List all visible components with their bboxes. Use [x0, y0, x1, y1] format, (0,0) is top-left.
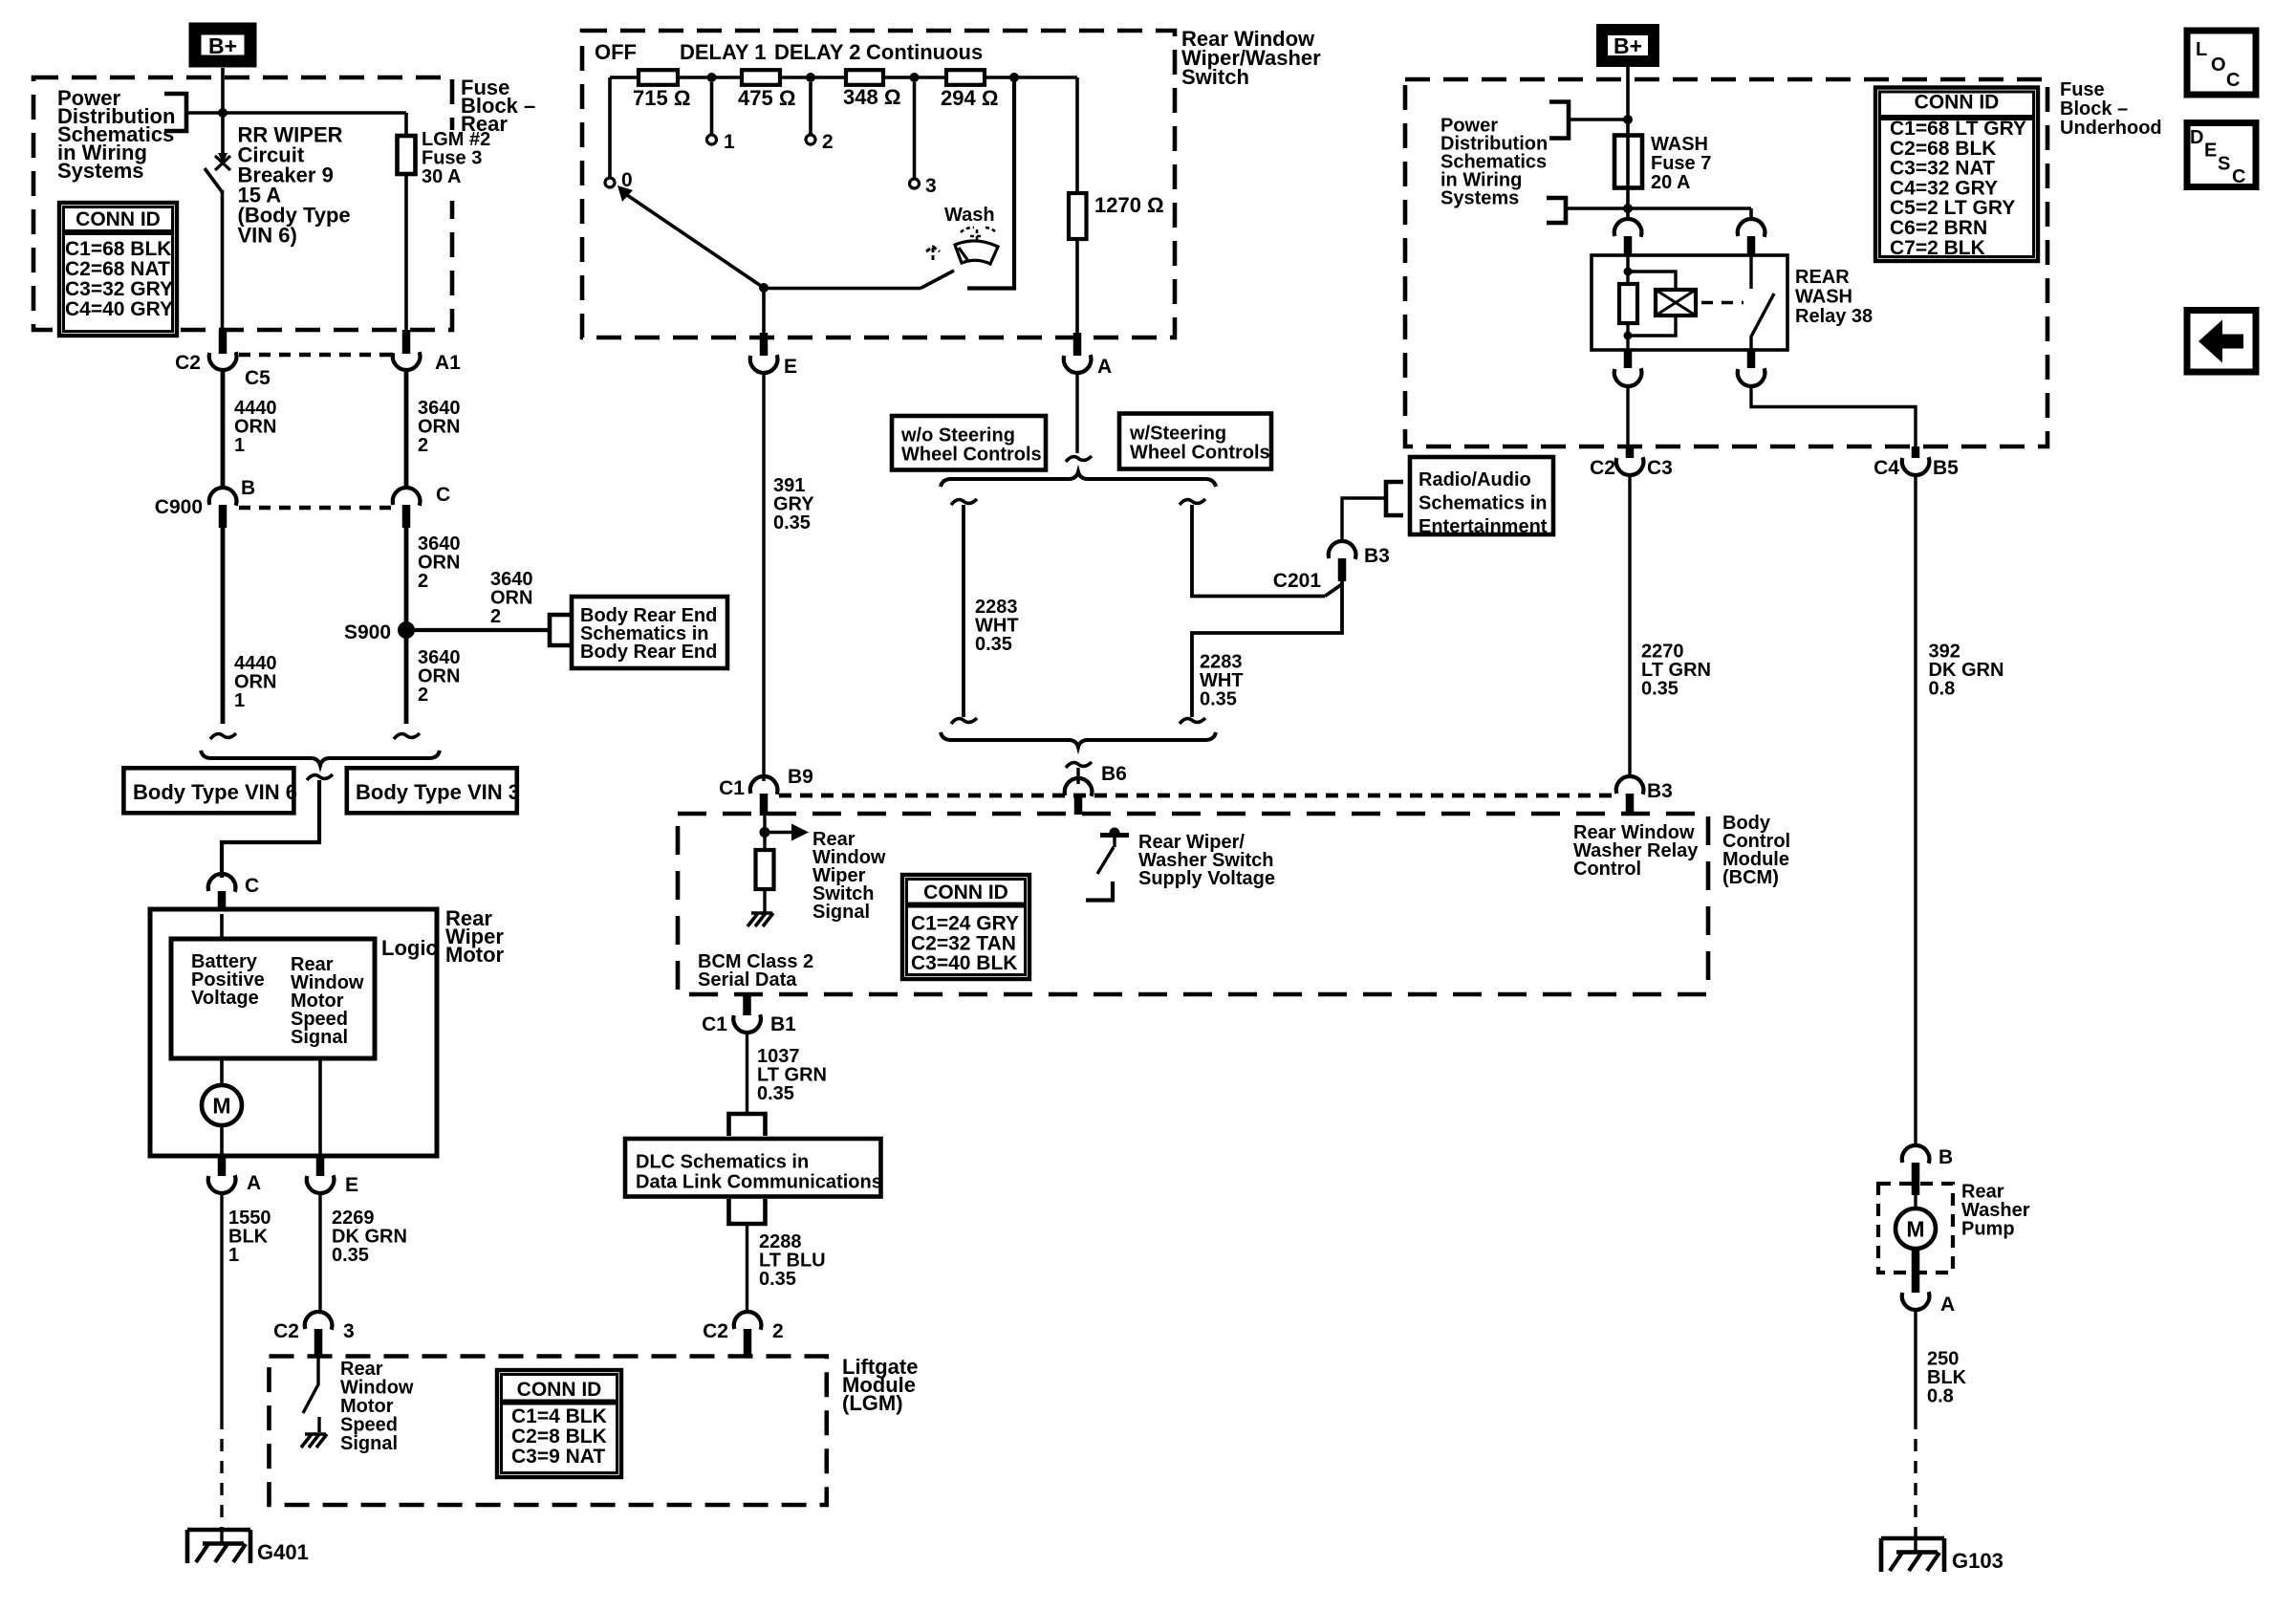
svg-text:C2=8 BLK: C2=8 BLK	[511, 1426, 607, 1448]
dashed module box Liftgate Module LGM	[270, 1357, 827, 1506]
svg-text:CONN ID: CONN ID	[517, 1379, 602, 1401]
svg-text:3: 3	[343, 1320, 355, 1342]
svg-text:C1=68 LT GRY: C1=68 LT GRY	[1890, 118, 2026, 140]
svg-text:Relay 38: Relay 38	[1795, 306, 1873, 327]
svg-text:1: 1	[228, 1245, 239, 1266]
brace steering wheel control options merge	[941, 732, 1216, 748]
svg-text:C1: C1	[702, 1013, 727, 1035]
svg-text:C2=68 BLK: C2=68 BLK	[1890, 138, 1996, 160]
svg-text:C2: C2	[175, 352, 201, 374]
svg-text:Body Rear End: Body Rear End	[580, 642, 717, 663]
connector C900 pin B	[209, 488, 237, 506]
svg-text:C2: C2	[703, 1320, 728, 1342]
node rotary common	[759, 283, 769, 293]
svg-text:C3: C3	[1647, 457, 1673, 479]
arrow rear window wiper switch signal	[765, 831, 791, 834]
svg-text:B3: B3	[1647, 780, 1673, 802]
node delay tap 2	[806, 73, 815, 82]
node B+ distribution (top)	[1623, 115, 1633, 124]
dashed ground wire to G401	[220, 1417, 223, 1528]
reference box Radio/Audio Schematics in Entertainment	[1410, 457, 1553, 534]
svg-text:A1: A1	[435, 352, 461, 374]
svg-text:Fuse: Fuse	[2060, 79, 2105, 100]
icon wiper blade	[955, 241, 998, 264]
svg-text:E: E	[345, 1174, 358, 1196]
svg-text:0.35: 0.35	[332, 1245, 369, 1266]
bracket to Body Rear End Schematics box	[550, 615, 571, 645]
wire end hook 3640	[394, 733, 420, 739]
svg-text:Underhood: Underhood	[2060, 118, 2162, 139]
svg-text:CONN ID: CONN ID	[76, 208, 161, 230]
svg-text:Block –: Block –	[2060, 98, 2128, 120]
bracket wire out of DLC reference	[729, 1199, 766, 1224]
tap wire position 1	[710, 82, 714, 134]
svg-text:2: 2	[822, 131, 834, 153]
wire S900 to Body Rear End reference	[406, 628, 550, 632]
dashed box Rear Window Wiper/Washer Switch	[582, 31, 1175, 337]
wire 2283 WHT right branch upper	[1192, 505, 1325, 597]
svg-text:C: C	[2232, 166, 2245, 187]
connector A (wiper switch)	[1073, 333, 1082, 356]
wire OFF position drop	[608, 77, 612, 177]
wire end hook below VIN brace	[307, 774, 333, 780]
svg-text:Systems: Systems	[1440, 188, 1519, 209]
wire diagonal into C201	[1325, 584, 1342, 597]
svg-text:0.8: 0.8	[1929, 679, 1956, 700]
terminal 3	[910, 179, 920, 188]
svg-text:C5: C5	[245, 367, 271, 389]
svg-text:Data Link Communications: Data Link Communications	[636, 1172, 882, 1193]
motor M (rear wiper motor)	[202, 1085, 242, 1125]
wire end hook left 2283 branch top	[951, 499, 977, 505]
svg-text:2: 2	[418, 571, 428, 592]
svg-text:C4: C4	[1874, 457, 1899, 479]
icon washer spray nozzle	[926, 247, 940, 260]
connector C1 pin B1 (BCM class 2 serial data)	[743, 994, 751, 1015]
relay coil resistor	[1619, 284, 1637, 323]
connector B6 (BCM)	[1076, 768, 1079, 784]
dashed box Fuse Block - Rear	[33, 77, 452, 330]
svg-text:Entertainment: Entertainment	[1419, 516, 1548, 537]
svg-text:2: 2	[772, 1320, 784, 1342]
svg-text:0.35: 0.35	[757, 1083, 794, 1104]
svg-text:C1=68 BLK: C1=68 BLK	[65, 238, 171, 260]
svg-text:B1: B1	[770, 1013, 796, 1035]
svg-text:C900: C900	[155, 496, 203, 518]
svg-text:(BCM): (BCM)	[1722, 867, 1779, 888]
svg-text:0.35: 0.35	[759, 1269, 796, 1290]
wash switch fixed contact	[967, 77, 1014, 289]
svg-text:2: 2	[490, 606, 501, 627]
connector A1 (fuse output)	[402, 330, 411, 354]
node WASH fuse output	[1623, 204, 1633, 213]
fuse block rear CONN ID table	[59, 203, 177, 336]
svg-text:Fuse 7: Fuse 7	[1651, 153, 1711, 174]
bracket to Power Distribution Schematics reference (left)	[164, 94, 186, 131]
dashed module box Body Control Module	[678, 814, 1708, 994]
connector C4 / B5 (washer pump feed)	[1912, 446, 1920, 458]
svg-text:Systems: Systems	[57, 159, 144, 183]
wire from B+ down to circuit breaker	[221, 68, 225, 155]
svg-text:Continuous: Continuous	[866, 40, 983, 64]
svg-text:B5: B5	[1933, 457, 1959, 479]
dashed connector interface line C900 B-C	[239, 506, 391, 511]
svg-text:C2=68 NAT: C2=68 NAT	[65, 258, 170, 280]
relay contact	[1749, 255, 1752, 289]
svg-text:C: C	[2226, 70, 2240, 91]
wire from VIN brace to rear wiper motor connector C	[222, 780, 319, 878]
svg-text:C: C	[245, 875, 259, 897]
resistor 475 ohm	[742, 70, 780, 85]
wire B3 to radio/audio reference	[1342, 498, 1386, 543]
svg-text:B3: B3	[1364, 545, 1390, 567]
svg-text:1: 1	[724, 131, 735, 153]
dashed ground wire to G103	[1914, 1417, 1917, 1536]
svg-text:1270 Ω: 1270 Ω	[1094, 193, 1164, 217]
wire end hook at A	[1066, 456, 1092, 462]
svg-text:715 Ω: 715 Ω	[633, 86, 690, 110]
svg-text:B: B	[241, 477, 255, 499]
bracket to Power Distribution Schematics (right bottom)	[1547, 198, 1566, 223]
wire rotary common to E	[762, 288, 766, 333]
svg-text:2: 2	[418, 685, 428, 706]
module box Rear Wiper Motor	[150, 909, 437, 1156]
legend box DESC	[2187, 123, 2256, 187]
node wash contact feed	[1009, 73, 1019, 82]
reference box DLC Schematics in Data Link Communications	[625, 1139, 881, 1197]
bracket wire into DLC reference	[729, 1114, 766, 1136]
svg-text:0.8: 0.8	[1927, 1386, 1954, 1407]
connector C2 / C3 (washer relay output)	[1626, 446, 1635, 458]
dashed box Rear Washer Pump	[1878, 1184, 1953, 1273]
svg-text:C2: C2	[273, 1320, 299, 1342]
wire below circuit breaker to C2	[221, 190, 225, 331]
rotary wiper arm with arrowhead	[627, 195, 764, 288]
svg-text:0.35: 0.35	[1641, 679, 1679, 700]
wire logic to motor M	[220, 1058, 224, 1086]
svg-text:Rear: Rear	[461, 112, 508, 136]
ground G103	[1881, 1536, 1944, 1541]
svg-text:C4=40 GRY: C4=40 GRY	[65, 298, 173, 320]
resistor (BCM wiper switch signal pull-up)	[756, 850, 774, 889]
resistor 348 ohm	[846, 70, 883, 85]
svg-text:(LGM): (LGM)	[842, 1391, 903, 1415]
wire rotary common to wash switch	[764, 287, 921, 291]
BCM CONN ID table	[902, 875, 1029, 979]
svg-text:Radio/Audio: Radio/Audio	[1419, 469, 1531, 490]
svg-text:30 A: 30 A	[422, 166, 462, 187]
wire resistor ladder	[610, 76, 639, 79]
connector B3 (BCM washer relay control)	[1616, 776, 1644, 795]
svg-text:S900: S900	[344, 621, 391, 643]
svg-text:C4=32 GRY: C4=32 GRY	[1890, 177, 1998, 199]
logic block of rear wiper motor	[171, 939, 375, 1058]
wire motor M to case	[220, 1125, 224, 1156]
svg-text:Signal: Signal	[291, 1027, 348, 1048]
connector C201 pin B3	[1329, 541, 1356, 559]
svg-text:Serial Data: Serial Data	[698, 969, 797, 991]
svg-text:A: A	[247, 1172, 261, 1194]
tap wire position 3	[913, 82, 917, 178]
svg-text:Wash: Wash	[944, 205, 995, 226]
svg-text:B: B	[1939, 1146, 1953, 1168]
resistor 715 ohm	[639, 70, 678, 85]
svg-text:Signal: Signal	[812, 902, 870, 923]
svg-text:A: A	[1940, 1294, 1955, 1316]
wire end hook right 2283 branch bottom	[1180, 718, 1205, 724]
svg-text:3: 3	[925, 175, 937, 197]
svg-text:C3=32 NAT: C3=32 NAT	[1890, 158, 1995, 180]
svg-text:C2=32 TAN: C2=32 TAN	[911, 932, 1016, 954]
wire 2283 WHT left branch	[962, 505, 965, 717]
dashed connector interface line C5-A1	[239, 353, 391, 358]
svg-text:S: S	[2218, 154, 2230, 175]
svg-text:1: 1	[234, 435, 245, 456]
svg-text:348 Ω: 348 Ω	[843, 85, 900, 109]
wire C into logic block	[220, 914, 224, 941]
connector A (rear washer pump)	[1902, 1292, 1930, 1310]
svg-text:Body Type VIN 6: Body Type VIN 6	[133, 780, 297, 804]
wire logic speed signal output	[318, 1058, 322, 1156]
label LGM #2 Fuse 3 30 A	[445, 130, 497, 201]
ground symbol (LGM internal)	[301, 1434, 327, 1448]
svg-text:C6=2 BRN: C6=2 BRN	[1890, 217, 1987, 239]
connector C2 pin 2 (liftgate module right)	[734, 1312, 762, 1330]
svg-text:475 Ω: 475 Ω	[738, 86, 795, 110]
svg-text:C201: C201	[1273, 570, 1322, 592]
node delay tap 1	[707, 73, 717, 82]
svg-text:Motor: Motor	[445, 943, 505, 967]
svg-text:C7=2 BLK: C7=2 BLK	[1890, 237, 1985, 259]
connector B (rear washer pump)	[1902, 1145, 1930, 1164]
liftgate module CONN ID table	[497, 1370, 621, 1477]
brace grouping body type VIN options	[201, 751, 440, 766]
connector C1 pin B9 (BCM)	[750, 776, 778, 795]
option box w/o Steering Wheel Controls	[892, 416, 1046, 470]
ground (BCM internal)	[747, 913, 773, 926]
svg-text:B6: B6	[1101, 763, 1127, 785]
fuse block underhood CONN ID table	[1875, 88, 2038, 262]
svg-text:Wheel Controls: Wheel Controls	[1130, 443, 1270, 464]
wire into pump motor	[1914, 1195, 1917, 1208]
reference box Body Rear End Schematics in Body Rear End	[572, 597, 727, 668]
relay coil (solenoid) symbol	[1656, 290, 1696, 316]
connector C2 / C5 (breaker output)	[219, 330, 227, 354]
wire end hook 4440	[210, 733, 236, 739]
option box Body Type VIN 3	[347, 768, 517, 813]
svg-text:CONN ID: CONN ID	[1915, 92, 2000, 114]
wire end hook above B6	[1066, 762, 1092, 768]
bracket to Radio/Audio Schematics box	[1386, 482, 1403, 515]
connector pin E (rear wiper motor)	[316, 1156, 325, 1176]
svg-text:WASH: WASH	[1795, 287, 1852, 308]
svg-text:DLC Schematics in: DLC Schematics in	[636, 1152, 809, 1173]
tap wire position 2	[809, 82, 812, 134]
svg-text:VIN 6): VIN 6)	[238, 224, 297, 248]
wire branch to LGM #2 fuse	[223, 111, 406, 115]
svg-text:Switch: Switch	[1181, 65, 1249, 89]
terminal 2	[806, 135, 815, 144]
terminal 0 (OFF)	[605, 178, 615, 187]
wire 1270 ohm branch	[1075, 77, 1079, 333]
connector C900 pin C	[393, 488, 421, 506]
fuse LGM #2 Fuse 3 30 A	[398, 136, 416, 174]
svg-text:CONN ID: CONN ID	[923, 882, 1008, 903]
svg-text:DELAY 1: DELAY 1	[680, 40, 767, 64]
svg-text:C2: C2	[1590, 457, 1615, 479]
svg-text:OFF: OFF	[595, 40, 637, 64]
svg-text:DELAY 2: DELAY 2	[774, 40, 861, 64]
svg-text:C1=24 GRY: C1=24 GRY	[911, 913, 1019, 935]
svg-text:M: M	[1906, 1217, 1924, 1242]
svg-text:2: 2	[418, 435, 428, 456]
power symbol B+ (fuse block rear)	[195, 29, 250, 61]
connector into relay contact (top right)	[1738, 219, 1765, 237]
wire through LGM #2 fuse down to A1	[404, 113, 408, 331]
dashed connector interface line across BCM	[779, 794, 1614, 798]
svg-text:Voltage: Voltage	[191, 988, 259, 1009]
svg-text:w/Steering: w/Steering	[1129, 424, 1226, 445]
wire end hook left 2283 branch bottom	[951, 718, 977, 724]
svg-text:0.35: 0.35	[1200, 689, 1237, 710]
relay box REAR WASH Relay 38	[1592, 255, 1787, 350]
fuse WASH Fuse 7 20 A	[1614, 136, 1642, 188]
svg-text:WASH: WASH	[1651, 134, 1708, 155]
svg-text:D: D	[2190, 127, 2203, 148]
svg-text:O: O	[2211, 54, 2226, 76]
svg-text:REAR: REAR	[1795, 267, 1850, 288]
switch rear window motor speed signal (in LGM)	[316, 1357, 319, 1385]
dashed box Fuse Block - Underhood	[1405, 79, 2047, 446]
svg-text:Supply Voltage: Supply Voltage	[1138, 868, 1275, 889]
connector into relay coil (top left)	[1614, 219, 1642, 237]
svg-text:294 Ω: 294 Ω	[941, 86, 998, 110]
resistor 294 ohm	[946, 70, 985, 85]
connector out of relay (bottom right)	[1747, 350, 1756, 368]
svg-text:A: A	[1097, 356, 1112, 378]
connector C2 pin 3 (liftgate module)	[305, 1312, 333, 1330]
svg-text:C3=32 GRY: C3=32 GRY	[65, 278, 173, 300]
svg-text:M: M	[212, 1094, 230, 1119]
svg-text:E: E	[2204, 141, 2217, 162]
terminal 1	[707, 135, 717, 144]
svg-text:Schematics in: Schematics in	[1419, 493, 1548, 514]
wire bracket to B+ feed	[186, 111, 223, 115]
legend box back-arrow	[2187, 311, 2256, 373]
connector pin A (rear wiper motor)	[218, 1156, 227, 1176]
svg-text:C1=4 BLK: C1=4 BLK	[511, 1405, 607, 1427]
svg-text:C5=2 LT GRY: C5=2 LT GRY	[1890, 197, 2015, 219]
relay mechanical link (dashed)	[1701, 301, 1744, 305]
relay coil circuit	[1626, 255, 1629, 284]
svg-text:G103: G103	[1952, 1549, 2004, 1573]
wash switch lever	[921, 271, 954, 289]
svg-text:Logic: Logic	[381, 936, 438, 960]
svg-text:E: E	[784, 356, 797, 378]
wire 2283 WHT right branch lower	[1192, 558, 1342, 717]
svg-text:Signal: Signal	[340, 1433, 398, 1454]
legend box LOC	[2187, 31, 2256, 95]
svg-text:Pump: Pump	[1961, 1219, 2015, 1240]
ground G401	[187, 1528, 250, 1533]
svg-text:B9: B9	[788, 766, 813, 788]
bracket to Power Distribution Schematics (right top)	[1549, 102, 1569, 139]
svg-text:C3=9 NAT: C3=9 NAT	[511, 1446, 605, 1468]
node delay tap 3	[910, 73, 920, 82]
svg-text:C3=40 BLK: C3=40 BLK	[911, 952, 1017, 974]
wire relay contact output to C4	[1751, 386, 1916, 446]
option box Body Type VIN 6	[123, 768, 293, 813]
svg-text:Body Type VIN 3: Body Type VIN 3	[356, 780, 520, 804]
connector C (rear wiper motor)	[208, 874, 236, 892]
resistor 1270 ohm	[1069, 193, 1087, 239]
svg-text:1: 1	[234, 690, 245, 711]
svg-text:20 A: 20 A	[1651, 172, 1691, 193]
svg-text:Control: Control	[1573, 859, 1641, 880]
svg-text:L: L	[2196, 39, 2207, 60]
brace steering wheel control options split	[941, 472, 1216, 488]
wire end hook right 2283 branch top	[1180, 499, 1205, 505]
connector out of relay (bottom left)	[1624, 350, 1633, 368]
wire 2288 to LGM	[746, 1224, 748, 1312]
node rear window wiper switch signal	[763, 816, 766, 850]
svg-text:0.35: 0.35	[975, 634, 1012, 655]
pump motor M	[1895, 1208, 1936, 1249]
connector E (wiper switch)	[760, 333, 769, 356]
svg-text:Wheel Controls: Wheel Controls	[901, 445, 1042, 466]
svg-text:C1: C1	[719, 777, 745, 799]
svg-text:G401: G401	[257, 1540, 309, 1564]
switch rear wiper/washer supply voltage (in BCM)	[1100, 833, 1129, 838]
svg-text:B+: B+	[208, 33, 237, 58]
svg-text:C: C	[436, 484, 450, 506]
wire B+ to WASH fuse	[1626, 67, 1630, 208]
svg-text:B+: B+	[1614, 33, 1642, 58]
svg-text:w/o Steering: w/o Steering	[900, 425, 1015, 446]
svg-text:0.35: 0.35	[773, 512, 811, 533]
circuit breaker CB9 symbol	[218, 153, 227, 163]
option box w/Steering Wheel Controls	[1119, 414, 1271, 469]
splice S900	[398, 621, 415, 639]
power symbol B+ (fuse block underhood)	[1602, 30, 1654, 61]
wire fuse output to relay contact feed	[1628, 207, 1751, 210]
wire pump motor to A	[1912, 1249, 1920, 1293]
junction node at fuse block rear feed	[218, 108, 227, 118]
